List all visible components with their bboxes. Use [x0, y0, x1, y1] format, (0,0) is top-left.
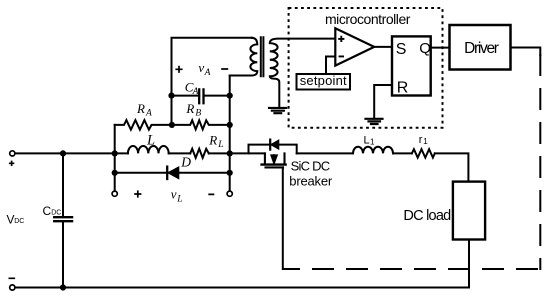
terminal source minus: [10, 285, 15, 290]
SR latch U1: [392, 36, 431, 95]
wire vA branch vertical: [171, 38, 173, 125]
wire bottom rail: [15, 287, 469, 289]
terminal vL right: [227, 191, 232, 196]
microcontroller dashed box: [289, 8, 443, 128]
breaker bypass loop: [249, 145, 297, 154]
diode D symbol: [166, 167, 168, 179]
svg-text:L: L: [217, 140, 223, 150]
node diode right: [227, 170, 233, 176]
setpoint box: [297, 74, 351, 90]
inductor L1: [353, 147, 393, 154]
node diode left: [112, 170, 118, 176]
node CA right: [227, 93, 233, 99]
wire vA top horizontal to transformer: [172, 37, 252, 39]
svg-text:D: D: [180, 154, 191, 169]
svg-text:DC: DC: [51, 210, 61, 217]
svg-text:setpoint: setpoint: [300, 73, 347, 88]
wire right branch vertical: [229, 76, 231, 192]
node rail right: [227, 150, 233, 156]
diode D line: [115, 172, 230, 174]
breaker diode symbol: [269, 140, 271, 150]
wire comparator out to S: [374, 46, 392, 48]
svg-text:Driver: Driver: [464, 40, 499, 57]
svg-text:1: 1: [423, 137, 428, 146]
wire Q to driver: [431, 47, 450, 49]
wire dashed bottom horizontal: [283, 268, 537, 270]
ground secondary: [269, 108, 286, 113]
svg-text:DC: DC: [14, 218, 24, 225]
node rail-CDC: [60, 150, 66, 156]
wire driver out: [511, 48, 541, 56]
svg-text:R: R: [397, 79, 409, 96]
svg-text:v: v: [198, 60, 204, 75]
resistor RB: [172, 120, 230, 129]
wire top rail left: [15, 152, 128, 154]
transformer primary winding: [250, 38, 257, 76]
svg-text:L: L: [176, 194, 182, 204]
svg-text:microcontroller: microcontroller: [325, 11, 411, 27]
mosfet gate bar: [266, 166, 284, 168]
node dots: [60, 93, 233, 291]
svg-text:breaker: breaker: [289, 174, 333, 189]
wire rail r1 to load: [435, 153, 469, 181]
node CA left: [168, 93, 174, 99]
capacitor CDC branch: [62, 153, 64, 287]
svg-text:R: R: [136, 101, 145, 116]
mosfet source drop: [283, 153, 285, 164]
svg-text:R: R: [208, 133, 217, 148]
wire upper branch left vertical: [114, 125, 116, 191]
node rail-RA branch: [112, 150, 118, 156]
svg-text:1: 1: [370, 138, 375, 147]
wire R input to ground: [374, 85, 392, 118]
resistor RL: [190, 149, 209, 158]
wire rail RL to breaker: [209, 152, 265, 154]
label plus source: [9, 161, 16, 279]
transformer secondary winding: [270, 39, 336, 107]
wire rail breaker to L1: [297, 152, 353, 154]
comparator minus stub: [326, 57, 335, 75]
wire gate lead down: [282, 167, 284, 269]
mosfet channel bar: [262, 163, 286, 165]
mosfet body arrow: [273, 155, 275, 163]
wire DC load bottom lead: [468, 240, 470, 288]
svg-text:A: A: [192, 87, 199, 97]
svg-text:DC load: DC load: [403, 208, 451, 224]
node RA-RB: [169, 122, 175, 128]
node RB right: [227, 122, 233, 128]
terminal source plus: [10, 151, 15, 156]
svg-text:B: B: [195, 108, 201, 118]
svg-text:R: R: [185, 101, 194, 116]
svg-text:A: A: [204, 68, 211, 78]
svg-text:S: S: [396, 41, 407, 58]
mosfet drain drop: [264, 153, 266, 164]
wire rail L1 to r1: [393, 152, 412, 154]
svg-text:SiC DC: SiC DC: [291, 158, 330, 173]
terminal vL left: [112, 191, 117, 196]
capacitor CA: [172, 95, 230, 97]
resistor r1: [412, 149, 435, 157]
wire primary bottom horizontal: [230, 75, 251, 77]
wire rail between L and RL: [169, 152, 191, 154]
svg-text:v: v: [171, 186, 177, 201]
svg-text:L: L: [146, 132, 155, 148]
resistor RA: [115, 120, 172, 130]
op-amp comparator: [335, 28, 374, 65]
inductor L: [128, 146, 169, 153]
svg-text:A: A: [145, 108, 152, 118]
DC load box: [453, 182, 485, 240]
Driver box: [450, 25, 511, 70]
svg-text:r: r: [419, 134, 423, 146]
svg-text:L: L: [364, 135, 370, 147]
svg-text:Q: Q: [419, 40, 431, 57]
capacitor CDC plates: [54, 217, 72, 221]
node bottom-CDC: [60, 284, 66, 290]
wire dashed driver to gate vertical: [539, 55, 541, 269]
transformer core: [261, 37, 264, 76]
svg-text:C: C: [43, 204, 52, 218]
ground R input: [366, 119, 383, 124]
